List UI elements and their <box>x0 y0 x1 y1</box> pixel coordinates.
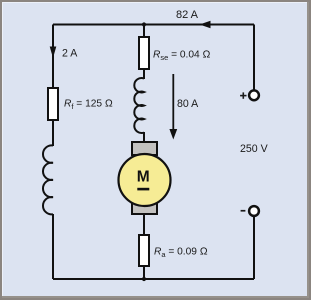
wire right bottom (- terminal to bottom) <box>253 217 255 280</box>
wire left below field coil to bottom <box>52 214 54 279</box>
arrow 2 A (pointing down on left wire) <box>50 47 57 59</box>
node junction bottom <box>142 277 146 281</box>
wire right top (corner to + terminal) <box>253 25 255 91</box>
svg-text:Rse = 0.04 Ω: Rse = 0.04 Ω <box>153 50 211 62</box>
wire middle motor to Ra <box>143 214 145 236</box>
motor brush bottom <box>132 203 157 214</box>
motor brush top <box>132 142 157 155</box>
arrow 80 A (current into motor) <box>169 74 177 140</box>
terminal + <box>249 90 259 100</box>
resistor Ra <box>139 235 149 266</box>
inductor field coil (shunt winding) <box>43 145 53 214</box>
wire middle junction to Rse <box>143 25 145 39</box>
wire middle Ra to bottom <box>143 265 145 279</box>
wire top horizontal <box>53 24 254 26</box>
wire middle Rse to series coil <box>143 68 145 79</box>
node junction top <box>142 22 146 26</box>
svg-text:Ra = 0.09 Ω: Ra = 0.09 Ω <box>154 247 208 259</box>
svg-text:82 A: 82 A <box>176 9 199 21</box>
label + <box>240 92 246 98</box>
svg-text:Rf = 125 Ω: Rf = 125 Ω <box>64 99 113 111</box>
svg-text:250 V: 250 V <box>240 143 269 155</box>
inductor series winding <box>134 78 144 133</box>
svg-text:2 A: 2 A <box>62 48 78 60</box>
svg-text:80 A: 80 A <box>177 98 199 110</box>
wire left vertical top (corner to Rf) <box>52 25 54 90</box>
wire left between Rf and field coil <box>52 119 54 146</box>
terminal - <box>249 206 259 216</box>
svg-text:M: M <box>137 168 150 185</box>
resistor Rf <box>48 88 58 120</box>
arrow 82 A (pointing left on top wire) <box>200 21 211 28</box>
resistor Rse <box>139 37 149 69</box>
motor M armature <box>119 154 171 206</box>
label - <box>241 210 246 212</box>
wire middle series coil to motor <box>143 132 145 143</box>
wire bottom horizontal <box>53 278 254 280</box>
